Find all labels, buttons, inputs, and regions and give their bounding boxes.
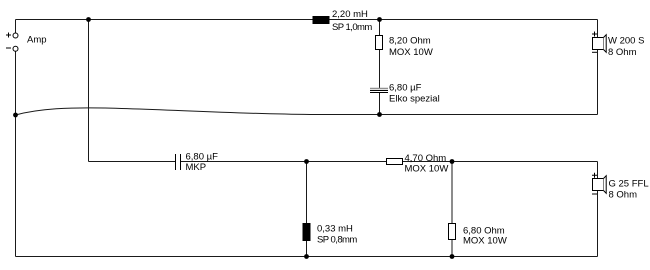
node junction left mid [13,113,18,118]
node junction L2 top [304,159,309,164]
wire right leg upper [597,20,599,38]
wire second branch vertical [88,20,90,162]
svg-text:MOX 10W: MOX 10W [405,163,449,174]
wire R3 branch bottom [451,240,453,257]
inductor L1 2,20 mH [313,16,330,24]
node junction L2 bottom [304,254,309,259]
wire L2 branch bottom [306,241,308,257]
wire R1 branch top [379,20,381,36]
capacitor C2 6,80 uF MKP [176,154,181,170]
svg-text:MKP: MKP [186,162,207,173]
resistor R3 6,80 Ohm [449,224,456,240]
speaker LS1 W 200 S [592,32,606,53]
wire R1 to C1 [379,50,381,88]
amp terminal + [6,33,18,39]
svg-text:0,33 mH: 0,33 mH [317,224,353,235]
wire R3 branch top [451,162,453,224]
node junction R3 top [450,159,455,164]
svg-text:MOX 10W: MOX 10W [463,236,507,247]
wire bottom rail [16,256,598,258]
svg-text:4,70 Ohm: 4,70 Ohm [405,153,447,164]
inductor L2 0,33 mH [303,223,311,241]
wire right leg to woofer [597,162,599,179]
svg-text:8 Ohm: 8 Ohm [608,47,637,58]
wire left rail lower [15,51,17,256]
wire right leg below woofer [597,191,599,257]
wire lowpass horizontal mid [181,161,386,163]
svg-text:6,80 µF: 6,80 µF [389,83,422,94]
svg-text:Elko spezial: Elko spezial [389,94,440,105]
svg-text:8 Ohm: 8 Ohm [609,190,638,201]
wire C1 bottom [379,93,381,115]
wire lowpass horizontal right [402,161,598,163]
svg-text:G 25 FFL: G 25 FFL [609,178,649,189]
node junction top-left branch [86,17,91,22]
capacitor C1 6,80 uF Elko [370,89,388,93]
resistor R1 8,20 Ohm [376,36,383,50]
amp terminal - [6,46,18,51]
node junction C1 bottom [377,112,382,117]
node junction R3 bottom [450,254,455,259]
wire lowpass horizontal left [89,161,176,163]
wire L2 branch top [306,162,308,224]
wire top rail [16,19,598,21]
wire left rail upper [15,20,17,34]
wire mid return (slightly hand-drawn arc) [16,108,598,115]
svg-text:SP 1,0mm: SP 1,0mm [332,22,372,33]
svg-text:6,80 µF: 6,80 µF [186,151,219,162]
svg-text:8,20 Ohm: 8,20 Ohm [389,36,431,47]
speaker LS2 G 25 FFL [592,173,606,194]
node junction R1 top [377,17,382,22]
wire right leg below tweeter feed [597,50,599,115]
svg-text:MOX 10W: MOX 10W [389,47,433,58]
svg-text:SP 0,8mm: SP 0,8mm [317,235,357,246]
svg-text:Amp: Amp [27,34,47,45]
resistor R2 4,70 Ohm [387,159,403,165]
svg-text:2,20 mH: 2,20 mH [332,9,368,20]
svg-text:W 200 S: W 200 S [608,35,644,46]
